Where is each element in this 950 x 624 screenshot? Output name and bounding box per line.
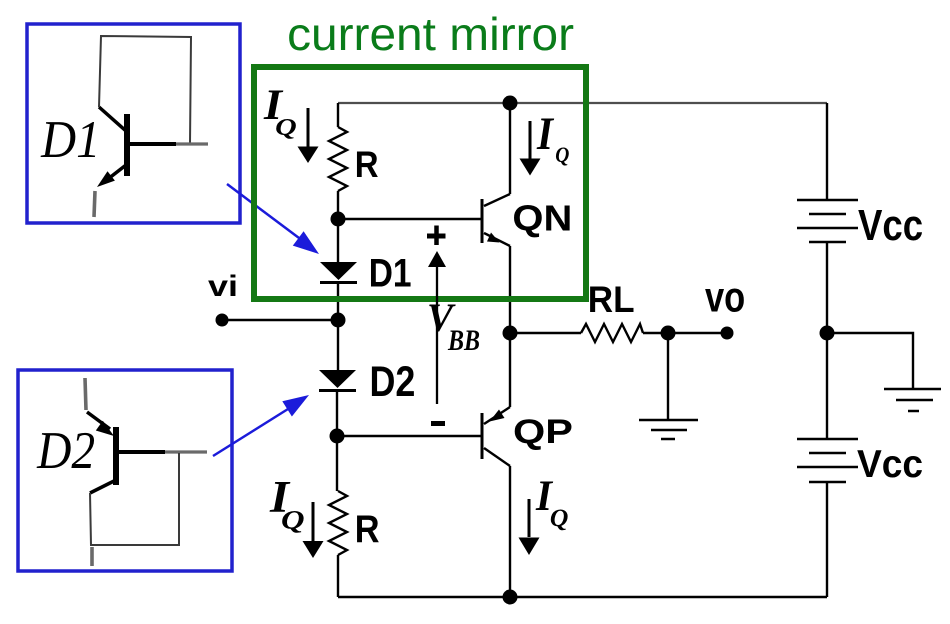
output node dot bbox=[503, 326, 518, 341]
svg-text:D2: D2 bbox=[36, 422, 95, 480]
svg-text:Q: Q bbox=[275, 115, 297, 141]
svg-text:R: R bbox=[355, 143, 379, 185]
wire D1 to vi node bbox=[337, 283, 339, 370]
svg-text:Vcc: Vcc bbox=[857, 443, 923, 486]
resistor R2 bbox=[329, 491, 347, 555]
current label IQ top-left bbox=[263, 81, 297, 141]
svg-text:RL: RL bbox=[588, 278, 635, 320]
bottom junction dot bbox=[503, 590, 518, 605]
transistor QP bbox=[482, 407, 510, 466]
wire vi lead bbox=[222, 319, 338, 321]
current label IQ bottom-right bbox=[535, 473, 568, 532]
diode D1 bbox=[320, 262, 357, 283]
svg-text:Vcc: Vcc bbox=[858, 202, 923, 250]
svg-text:D1: D1 bbox=[369, 250, 412, 295]
blue arrow to D1 bbox=[227, 184, 319, 254]
wire battery upper to mid node bbox=[826, 242, 828, 333]
wire mid node to battery lower bbox=[826, 333, 828, 439]
battery Vcc upper bbox=[797, 200, 858, 242]
wire QN base bbox=[338, 218, 481, 220]
mid node dot bbox=[820, 326, 835, 341]
transistor sketch in D2 box bbox=[85, 378, 207, 566]
blue callout box D2 bbox=[18, 370, 232, 571]
wire QP emitter up bbox=[509, 333, 511, 407]
vo terminal dot bbox=[721, 327, 734, 340]
node A dot bbox=[331, 212, 346, 227]
wire top rail bbox=[338, 102, 827, 104]
top rail dot bbox=[503, 96, 518, 111]
wire QP base bbox=[337, 435, 481, 437]
svg-text:D1: D1 bbox=[40, 111, 100, 169]
current label IQ bottom-left bbox=[269, 472, 305, 534]
minus sign bbox=[431, 421, 445, 426]
wire D2 to node B bbox=[336, 391, 338, 491]
blue callout box D1 bbox=[27, 24, 240, 223]
current arrow IQ top-right bbox=[520, 121, 541, 176]
plus sign bbox=[427, 226, 446, 246]
vi terminal dot bbox=[216, 314, 229, 327]
wire R1 top lead bbox=[337, 103, 339, 127]
current label IQ top-right bbox=[536, 108, 569, 167]
svg-text:QP: QP bbox=[513, 413, 573, 451]
svg-text:Q: Q bbox=[555, 142, 569, 167]
current mirror box bbox=[254, 67, 586, 299]
wire R2 bottom lead bbox=[337, 555, 339, 597]
current arrow IQ bottom-left bbox=[303, 502, 324, 558]
diode D2 bbox=[319, 370, 356, 391]
wire QN emitter down bbox=[509, 246, 511, 333]
resistor R1 bbox=[329, 127, 347, 191]
wire output to RL bbox=[510, 332, 581, 334]
wire QP collector down bbox=[509, 466, 511, 597]
wire mid node to ground 2 bbox=[827, 333, 913, 389]
transistor QN bbox=[482, 194, 510, 246]
wire battery lower to bottom rail bbox=[826, 482, 828, 597]
wire bottom rail bbox=[338, 596, 827, 598]
wire to ground 1 bbox=[667, 333, 669, 420]
resistor RL bbox=[581, 324, 643, 342]
current arrow IQ bottom-right bbox=[519, 499, 540, 555]
svg-text:Q: Q bbox=[550, 505, 569, 532]
RL node dot bbox=[661, 326, 676, 341]
wire top right drop to battery bbox=[826, 103, 828, 200]
ground 1 bbox=[639, 420, 698, 439]
label VBB bbox=[427, 295, 480, 357]
ground 2 bbox=[884, 389, 941, 411]
wire QN collector up bbox=[509, 103, 511, 194]
svg-text:current mirror: current mirror bbox=[287, 8, 574, 60]
svg-text:R: R bbox=[355, 508, 380, 551]
transistor sketch in D1 box bbox=[94, 36, 208, 217]
svg-text:I: I bbox=[536, 108, 554, 160]
wire R1 to node A bbox=[337, 191, 339, 263]
VBB arrow bbox=[428, 251, 446, 404]
node vi junction dot bbox=[331, 313, 346, 328]
svg-text:Q: Q bbox=[281, 506, 305, 535]
svg-text:vi: vi bbox=[208, 270, 238, 303]
wire RL to vo bbox=[643, 332, 726, 334]
battery Vcc lower bbox=[797, 439, 858, 482]
svg-text:QN: QN bbox=[512, 197, 572, 238]
node B dot bbox=[330, 429, 345, 444]
svg-text:D2: D2 bbox=[370, 358, 416, 406]
current arrow IQ top-left bbox=[298, 108, 319, 163]
svg-text:vo: vo bbox=[705, 273, 745, 321]
blue arrow to D2 bbox=[213, 395, 309, 456]
svg-text:BB: BB bbox=[447, 325, 480, 357]
